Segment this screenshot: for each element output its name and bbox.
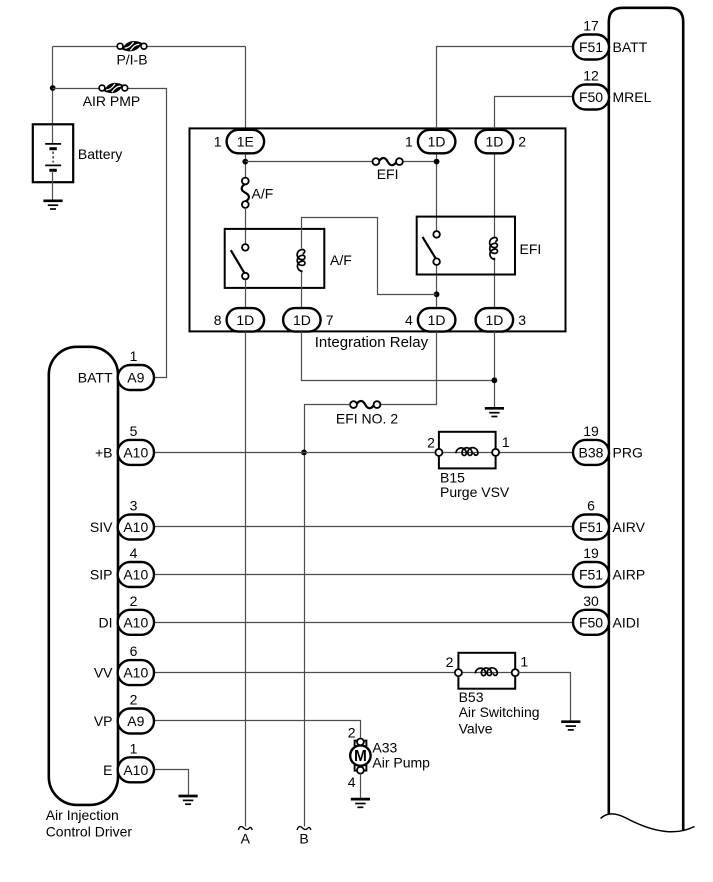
connector A9 pin 2 (VP) <box>118 709 154 734</box>
svg-text:2: 2 <box>427 434 435 450</box>
terminal B53 pin 2 <box>455 669 462 676</box>
node junction +B tap <box>301 450 307 456</box>
terminal B15 pin 1 <box>492 449 499 456</box>
wire 1D pin2 down to EFI coil <box>494 153 496 239</box>
relay pin 1D-4 <box>418 308 456 332</box>
battery internal wire bottom + to ground <box>52 171 54 201</box>
wire AIR PMP left segment <box>53 88 100 90</box>
svg-text:Air Pump: Air Pump <box>372 755 430 771</box>
wire +B to Purge VSV pin 2 <box>154 452 436 454</box>
terminal B15 pin 2 <box>435 449 442 456</box>
ground battery <box>43 199 62 202</box>
svg-text:P/I-B: P/I-B <box>116 52 147 68</box>
svg-text:A10: A10 <box>123 567 148 583</box>
svg-text:A10: A10 <box>123 519 148 535</box>
svg-text:1D: 1D <box>485 134 503 150</box>
svg-text:+B: +B <box>95 444 113 460</box>
svg-text:B: B <box>299 831 308 847</box>
battery plate long bottom <box>45 164 61 166</box>
fusible link P/I-B <box>117 43 123 49</box>
svg-text:M: M <box>354 748 367 765</box>
break symbol B <box>297 827 311 830</box>
connector A10 pin 5 (+B) <box>118 440 154 465</box>
battery B1 box <box>33 124 73 182</box>
relay pin 1D-3 <box>476 308 513 332</box>
wire EFI switch to 1D pin 4 <box>436 265 438 309</box>
svg-text:E: E <box>103 762 112 778</box>
svg-text:1: 1 <box>520 654 528 670</box>
ECM shell wavy break <box>601 814 695 832</box>
coil EFI relay <box>490 237 498 259</box>
solenoid B53 box <box>458 653 515 689</box>
svg-text:B53: B53 <box>459 689 484 705</box>
relay pin 1D-2 <box>476 130 513 154</box>
connector F51 pin 19 (AIRP) <box>573 562 609 587</box>
svg-text:30: 30 <box>583 593 599 609</box>
integration relay box <box>190 128 566 331</box>
node junction EFI fuse / pin1 <box>434 159 440 165</box>
svg-text:1: 1 <box>502 434 510 450</box>
svg-text:BATT: BATT <box>613 39 648 55</box>
svg-text:1D: 1D <box>293 312 311 328</box>
connector B38 pin 19 (PRG) <box>573 440 609 465</box>
svg-text:PRG: PRG <box>613 444 643 460</box>
connector A9 pin 1 (BATT) <box>118 365 154 390</box>
wire 1D pin 7 down and right to EFI-coil ground node <box>302 332 495 381</box>
node junction pin3/pin7 <box>492 377 498 383</box>
relay A/F box <box>225 229 325 288</box>
wire A/F switch to 1D pin 8 <box>245 280 247 309</box>
battery plate short thick bottom <box>49 169 56 172</box>
switch EFI relay <box>433 231 440 238</box>
svg-text:F50: F50 <box>579 614 603 630</box>
wire EFI fuse row right segment <box>403 161 437 163</box>
fuse EFI NO. 2 <box>350 401 357 408</box>
wire 1D pin 8 down to break A <box>245 332 247 827</box>
svg-text:Valve: Valve <box>459 720 493 736</box>
svg-text:1: 1 <box>214 134 222 150</box>
wire 1D pin1 down to EFI switch <box>436 153 438 232</box>
svg-text:19: 19 <box>583 423 599 439</box>
svg-text:17: 17 <box>583 18 599 34</box>
svg-text:Air Injection: Air Injection <box>46 807 119 823</box>
svg-text:A9: A9 <box>127 370 144 386</box>
svg-text:Integration Relay: Integration Relay <box>315 334 429 351</box>
motor A33 terminal 2 <box>357 739 364 746</box>
connector A10 pin 2 (DI) <box>118 610 154 635</box>
svg-text:AIRV: AIRV <box>613 519 646 535</box>
svg-text:3: 3 <box>130 498 138 514</box>
coil B53 <box>475 668 497 676</box>
wire 1E to junction to A/F fuse <box>245 153 247 178</box>
svg-text:AIR PMP: AIR PMP <box>83 93 141 109</box>
wire drop to relay pin 1E <box>245 47 247 131</box>
svg-text:2: 2 <box>130 593 138 609</box>
wire DI to AIDI <box>154 622 573 624</box>
svg-text:6: 6 <box>130 643 138 659</box>
svg-text:2: 2 <box>348 724 356 740</box>
svg-text:AIRP: AIRP <box>613 567 646 583</box>
wire battery positive vertical (x=52.7) <box>52 47 54 125</box>
svg-text:MREL: MREL <box>613 89 652 105</box>
relay pin 1E <box>227 130 265 154</box>
svg-text:DI: DI <box>99 614 113 630</box>
svg-text:VP: VP <box>94 713 113 729</box>
node junction EFI switch out / A-F coil branch <box>434 291 440 297</box>
motor A33 housing bottom <box>355 764 367 771</box>
svg-text:Purge VSV: Purge VSV <box>440 484 510 500</box>
svg-text:3: 3 <box>518 312 526 328</box>
wire 1D pin 3 down to ground <box>494 332 496 408</box>
svg-text:6: 6 <box>587 498 595 514</box>
ground EFI relay <box>485 407 504 410</box>
wire P/I-B feed left segment <box>53 46 118 48</box>
battery plate short thick top <box>49 147 56 150</box>
svg-text:A: A <box>241 831 251 847</box>
svg-text:1D: 1D <box>236 312 254 328</box>
svg-text:Air Switching: Air Switching <box>459 704 540 720</box>
connector A10 pin 4 (SIP) <box>118 562 154 587</box>
svg-text:F51: F51 <box>579 39 603 55</box>
battery dashed middle <box>52 152 54 163</box>
wire EFI coil to 1D pin 3 <box>494 258 496 309</box>
relay pin 1D-7 <box>283 308 321 332</box>
motor A33 body <box>350 745 370 765</box>
svg-text:1D: 1D <box>485 312 503 328</box>
svg-text:SIP: SIP <box>90 567 113 583</box>
connector F50 pin 30 (AIDI) <box>573 610 609 635</box>
wire F50 MREL to relay 1D pin 2 <box>495 97 573 131</box>
svg-text:7: 7 <box>326 312 334 328</box>
battery internal wire top <box>52 125 54 144</box>
svg-text:A10: A10 <box>123 665 148 681</box>
break symbol A <box>238 827 252 830</box>
wire E to ground <box>154 770 189 796</box>
svg-text:1: 1 <box>405 134 413 150</box>
wire VV to Air Switching Valve pin 2 <box>154 672 455 674</box>
svg-text:SIV: SIV <box>90 519 113 535</box>
svg-text:EFI: EFI <box>520 241 542 257</box>
svg-text:A10: A10 <box>123 444 148 460</box>
fuse A/F (vertical) <box>242 178 249 185</box>
svg-text:2: 2 <box>446 654 454 670</box>
wire Purge VSV pin 1 to B38 PRG <box>500 452 573 454</box>
wire through B15 coil <box>443 452 493 454</box>
coil B15 <box>456 448 478 456</box>
wire SIV to AIRV <box>154 526 573 528</box>
svg-text:5: 5 <box>130 423 138 439</box>
node junction below 1E <box>242 159 248 165</box>
svg-text:A9: A9 <box>127 713 144 729</box>
svg-text:F50: F50 <box>579 89 603 105</box>
svg-text:Battery: Battery <box>78 146 122 162</box>
wire motor pin4 to ground <box>360 774 362 799</box>
svg-text:B38: B38 <box>579 444 604 460</box>
svg-text:2: 2 <box>130 692 138 708</box>
battery plate long top <box>45 143 61 145</box>
svg-text:A/F: A/F <box>252 186 274 202</box>
ECM connector shell <box>609 8 683 831</box>
svg-text:A33: A33 <box>372 740 397 756</box>
ground B53 <box>561 720 580 723</box>
terminal B53 pin 1 <box>512 669 519 676</box>
wire P/I-B feed right segment to 1E drop <box>147 46 246 48</box>
relay pin 1D-8 <box>227 308 265 332</box>
svg-text:A10: A10 <box>123 762 148 778</box>
svg-text:4: 4 <box>130 545 138 561</box>
connector shell Air Injection Control Driver <box>49 347 118 805</box>
wire EFI NO.2 fuse down to break B <box>305 405 351 827</box>
relay pin 1D-1 <box>418 130 456 154</box>
svg-text:1D: 1D <box>428 312 446 328</box>
connector A10 pin 3 (SIV) <box>118 515 154 540</box>
relay EFI box <box>417 217 515 275</box>
svg-text:A10: A10 <box>123 614 148 630</box>
svg-text:VV: VV <box>94 665 113 681</box>
svg-text:AIDI: AIDI <box>613 614 640 630</box>
wire AIR PMP right segment + riser down to A9 BATT <box>128 89 167 378</box>
coil A/F relay <box>297 249 305 271</box>
ground air pump <box>351 798 370 801</box>
fuse EFI <box>373 158 380 165</box>
svg-text:1E: 1E <box>237 134 254 150</box>
wire SIP to AIRP <box>154 574 573 576</box>
wire A/F coil top branch to EFI switch output <box>302 218 437 295</box>
svg-text:2: 2 <box>518 134 526 150</box>
wire B53 pin1 to ground <box>519 673 571 721</box>
svg-text:1D: 1D <box>428 134 446 150</box>
ground driver E terminal <box>179 795 198 798</box>
svg-text:1: 1 <box>130 348 138 364</box>
svg-text:A/F: A/F <box>330 252 352 268</box>
wire through B53 coil <box>462 672 512 674</box>
svg-text:EFI NO. 2: EFI NO. 2 <box>336 411 398 427</box>
wire A/F coil bottom to 1D pin 7 <box>301 272 303 309</box>
solenoid B15 Purge VSV box <box>439 432 496 469</box>
svg-text:4: 4 <box>405 312 413 328</box>
wire EFI fuse row left segment <box>246 161 373 163</box>
wire 1D pin 4 down to EFI NO.2 fuse <box>381 332 437 405</box>
node junction battery/AIR-PMP <box>50 85 56 91</box>
fusible link AIR PMP <box>99 85 105 91</box>
wire A/F fuse to A/F relay switch <box>245 208 247 245</box>
svg-text:EFI: EFI <box>377 166 399 182</box>
svg-text:Control Driver: Control Driver <box>46 823 133 839</box>
svg-text:19: 19 <box>583 545 599 561</box>
connector F51 pin 17 (BATT) <box>573 35 609 60</box>
svg-text:4: 4 <box>348 774 356 790</box>
svg-text:BATT: BATT <box>78 370 113 386</box>
connector A10 pin 6 (VV) <box>118 660 154 685</box>
svg-text:F51: F51 <box>579 519 603 535</box>
connector F50 pin 12 (MREL) <box>573 85 609 110</box>
connector F51 pin 6 (AIRV) <box>573 515 609 540</box>
connector A10 pin 1 (E) <box>118 757 154 782</box>
wire F51 BATT to relay 1D pin 1 <box>437 47 573 131</box>
svg-text:12: 12 <box>583 68 599 84</box>
motor A33 terminal 4 <box>357 767 364 774</box>
wire VP to air pump <box>154 721 361 739</box>
motor A33 housing top <box>355 741 367 748</box>
svg-text:1: 1 <box>130 740 138 756</box>
switch A/F relay <box>242 244 249 251</box>
svg-text:8: 8 <box>214 312 222 328</box>
svg-text:F51: F51 <box>579 567 603 583</box>
